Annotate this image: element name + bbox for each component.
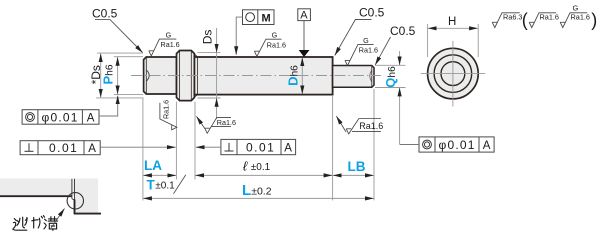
svg-text:0.01: 0.01 (49, 141, 78, 155)
svg-text:G: G (573, 4, 579, 13)
svg-text:M: M (262, 13, 271, 25)
chamfer label C0.5 top-left (92, 7, 143, 53)
concentricity frame right (400, 137, 494, 152)
roughness symbol below right (336, 116, 383, 134)
svg-text:A: A (300, 9, 308, 21)
svg-text:±0.1: ±0.1 (251, 162, 271, 173)
svg-text:L: L (242, 182, 251, 199)
svg-text:Ra1.6: Ra1.6 (162, 100, 171, 119)
svg-text:Ra1.6: Ra1.6 (359, 121, 383, 131)
svg-text:φ0.01: φ0.01 (439, 138, 476, 152)
end view circles (421, 41, 486, 107)
svg-text:ℓ: ℓ (243, 159, 248, 174)
svg-text:Ra1.6: Ra1.6 (217, 118, 236, 127)
svg-text:Ra1.6: Ra1.6 (540, 13, 559, 22)
kanji nige (14, 219, 16, 221)
dimension *Ds left (89, 53, 143, 98)
dimension L (143, 182, 373, 199)
svg-text:A: A (88, 143, 96, 155)
roughness symbol below main section (197, 116, 236, 133)
dimension H (428, 16, 479, 57)
kana ge (32, 220, 38, 221)
dimension D h6 (286, 58, 303, 94)
geometric frame circle M (236, 10, 274, 55)
svg-text:C0.5: C0.5 (359, 6, 385, 20)
perpendicularity frame left (20, 141, 176, 155)
svg-text:(: ( (522, 10, 528, 30)
chamfer label C0.5 right (375, 24, 415, 65)
svg-text:A: A (87, 112, 95, 124)
dimension l (195, 159, 332, 176)
svg-text:φ0.01: φ0.01 (42, 110, 79, 124)
svg-text:±0.2: ±0.2 (251, 186, 272, 198)
roughness symbol above left section (149, 30, 180, 56)
extension lines below shaft (142, 98, 144, 201)
roughness symbol rotated at collar left face (160, 100, 177, 130)
perpendicularity frame middle (196, 139, 296, 154)
roughness symbol above main section (254, 30, 286, 56)
svg-text:Ra1.6: Ra1.6 (571, 13, 590, 22)
datum A (298, 9, 311, 57)
svg-text:LA: LA (144, 158, 162, 173)
svg-text:Ra1.6: Ra1.6 (267, 41, 286, 50)
svg-text:A: A (483, 140, 491, 152)
dimension Q h6 (375, 51, 406, 145)
svg-text:LB: LB (348, 159, 366, 174)
svg-text:A: A (284, 142, 292, 154)
collar (177, 51, 195, 101)
svg-text:Ds: Ds (201, 30, 215, 45)
dimension T (147, 175, 186, 194)
label nigemizo (relief groove) (13, 216, 58, 231)
centerline main view (131, 75, 381, 77)
shaft main section D (194, 54, 332, 97)
svg-text:T: T (147, 178, 156, 193)
svg-text:C0.5: C0.5 (390, 24, 416, 38)
svg-text:Ra1.6: Ra1.6 (161, 40, 180, 49)
svg-text:Ra1.6: Ra1.6 (359, 45, 378, 54)
svg-text:G: G (166, 30, 172, 39)
svg-text:H: H (448, 16, 456, 28)
svg-text:G: G (363, 36, 369, 45)
svg-text:Ra6.3: Ra6.3 (503, 13, 522, 22)
svg-text:0.01: 0.01 (246, 140, 275, 154)
roughness note top right (492, 13, 587, 28)
detail balloon circle (67, 193, 83, 209)
kanji mizo (45, 219, 47, 221)
svg-text:C0.5: C0.5 (92, 7, 118, 21)
chamfer label C0.5 top-middle (335, 6, 385, 56)
svg-text:): ) (591, 10, 597, 30)
svg-text:G: G (272, 30, 278, 39)
svg-text:±0.1: ±0.1 (155, 181, 175, 192)
dimension Ds main with offset extension lines (198, 28, 221, 119)
shaft right section Q (333, 66, 374, 88)
shaft left section P (144, 57, 177, 94)
leader for relief groove (51, 209, 65, 229)
dimension LB (333, 159, 374, 175)
svg-text:Qh6: Qh6 (383, 66, 398, 88)
dimension P h6 (101, 57, 143, 95)
concentricity frame left (22, 96, 118, 125)
dimension LA (143, 158, 176, 175)
roughness symbol above Q section (345, 36, 378, 66)
detail view relief groove (0, 179, 101, 214)
